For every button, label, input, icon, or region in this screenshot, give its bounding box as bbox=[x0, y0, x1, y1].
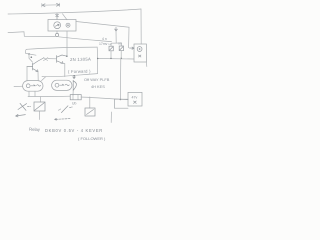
node dot junction at x111 bbox=[110, 58, 111, 59]
wire T1 base drop bbox=[26, 66, 28, 80]
symbols inside G2 bbox=[55, 83, 69, 87]
node dot at rail B drop bbox=[97, 58, 98, 59]
wire bottom rail left bbox=[28, 95, 70, 97]
node arrow tap rail C bbox=[73, 76, 76, 79]
meter box M1 bbox=[134, 44, 146, 62]
arrow actuate S2 bbox=[55, 118, 70, 121]
arrow actuate S1 bbox=[16, 114, 26, 117]
wire junction to T2 base area bbox=[25, 53, 36, 55]
symbols inside G1 bbox=[26, 84, 40, 88]
contact frame K3 bbox=[114, 99, 128, 108]
trimmer element P1 bbox=[109, 46, 113, 51]
svg-text:47v: 47v bbox=[132, 96, 138, 100]
wire rail B right drop bbox=[96, 47, 99, 74]
wire rail C bbox=[42, 74, 98, 77]
node dot bottom rail bbox=[120, 99, 122, 101]
wire input rail with jog bbox=[8, 32, 55, 37]
wire diagonal from top rail to box right circle bbox=[63, 14, 68, 20]
wire relay2 tap bbox=[89, 97, 91, 108]
node dot junction at x121 bbox=[121, 58, 122, 59]
switch S1 contacts bbox=[18, 103, 31, 110]
wire K1 bottom lead bbox=[39, 111, 41, 120]
oscillator stadium G1 bbox=[23, 81, 43, 92]
svg-text:( Forward ): ( Forward ) bbox=[68, 69, 91, 74]
oscillator stadium G2 bbox=[52, 80, 72, 90]
wire right branch bbox=[120, 43, 122, 46]
node dot rail C junction bbox=[73, 75, 75, 77]
svg-text:GB: GB bbox=[118, 42, 122, 46]
node dot collector junction bbox=[66, 55, 68, 57]
svg-text:4 n: 4 n bbox=[102, 37, 107, 41]
trimmer element P2 bbox=[119, 46, 123, 51]
svg-text:Ub: Ub bbox=[72, 102, 76, 106]
wire P1 bottom lead bbox=[110, 51, 112, 58]
wire D1 bottom lead bbox=[72, 91, 74, 95]
wire P2 bottom lead bbox=[120, 51, 122, 58]
svg-text:Off WAY PLFB: Off WAY PLFB bbox=[84, 77, 110, 82]
wire rail A continues right bbox=[59, 37, 112, 42]
wire G1 output leads bbox=[29, 91, 35, 96]
svg-text:DKB0V 0.5V - 4 KEVER: DKB0V 0.5V - 4 KEVER bbox=[45, 128, 103, 133]
wire bottom rail right bbox=[81, 97, 128, 100]
node junction of top rail and source box lead bbox=[56, 14, 59, 20]
wire left branch bbox=[110, 43, 112, 46]
wire rail B bbox=[27, 47, 98, 49]
svg-text:4H KES: 4H KES bbox=[91, 84, 105, 89]
node arrow tap on wire at x116 bbox=[115, 27, 118, 31]
driver element D1 bbox=[73, 80, 76, 91]
wire T2 emitter drop bbox=[63, 63, 65, 76]
node dot T1 top bbox=[31, 56, 33, 58]
wire arrow into M1 left bbox=[130, 47, 135, 49]
relay coil K1 bbox=[34, 102, 45, 111]
battery GB1 bbox=[70, 95, 81, 100]
wire tap down to divider pair bbox=[115, 31, 117, 43]
svg-text:2N 1305A: 2N 1305A bbox=[70, 57, 91, 62]
svg-text:( FOLLOWER ): ( FOLLOWER ) bbox=[78, 136, 106, 141]
divider pair bar bbox=[111, 42, 121, 44]
wire top rail drop into M1 bbox=[140, 9, 142, 44]
switch S2 contacts bbox=[59, 106, 73, 113]
wire rail B left hook down bbox=[25, 49, 26, 53]
dimension arrow above source box bbox=[42, 3, 60, 7]
wire top rail bbox=[8, 9, 141, 14]
wire T1 emitter drop bbox=[37, 72, 39, 81]
relay contact K2 bbox=[85, 108, 95, 116]
transistor T2 bbox=[57, 55, 67, 63]
transistor T1 bbox=[27, 58, 44, 72]
small lamp circle inside U1 bbox=[66, 23, 70, 27]
wire long vertical x67 bbox=[66, 31, 68, 56]
wire long vertical x120 bbox=[119, 58, 121, 99]
wire stub left of G1 bbox=[14, 85, 23, 87]
wire stub below K3 bbox=[110, 112, 112, 123]
wire down from junction bbox=[29, 54, 32, 62]
source box U1 bbox=[48, 20, 76, 32]
meter circle inside M1 bbox=[137, 47, 142, 57]
wire relay1 tap bbox=[40, 97, 42, 102]
wire from U1 right side to right column bbox=[76, 22, 129, 28]
svg-text:Relay: Relay bbox=[29, 127, 41, 132]
wire M1 right stub bbox=[145, 62, 147, 67]
svg-text:17mv: 17mv bbox=[99, 42, 108, 46]
current source circle inside U1 bbox=[54, 22, 61, 29]
terminal circle below U1 bbox=[56, 33, 59, 36]
node dot left junction bbox=[28, 53, 30, 55]
resistor box R47 bbox=[128, 92, 142, 106]
wire U1 bottom lead bbox=[56, 31, 58, 33]
symbol inside R47 bbox=[134, 101, 137, 103]
wire right column drop bbox=[128, 27, 130, 48]
wire X crossing bbox=[44, 58, 48, 61]
wire base feed to T2 bbox=[48, 58, 57, 60]
wire stadium1 to rail C diagonal bbox=[42, 77, 46, 81]
wire mid rail to meter bbox=[98, 58, 134, 61]
